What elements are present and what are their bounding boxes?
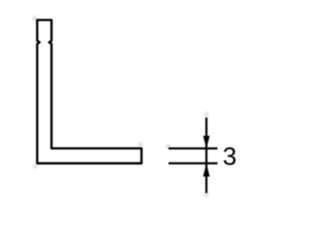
svg-text:3: 3 — [223, 143, 237, 171]
